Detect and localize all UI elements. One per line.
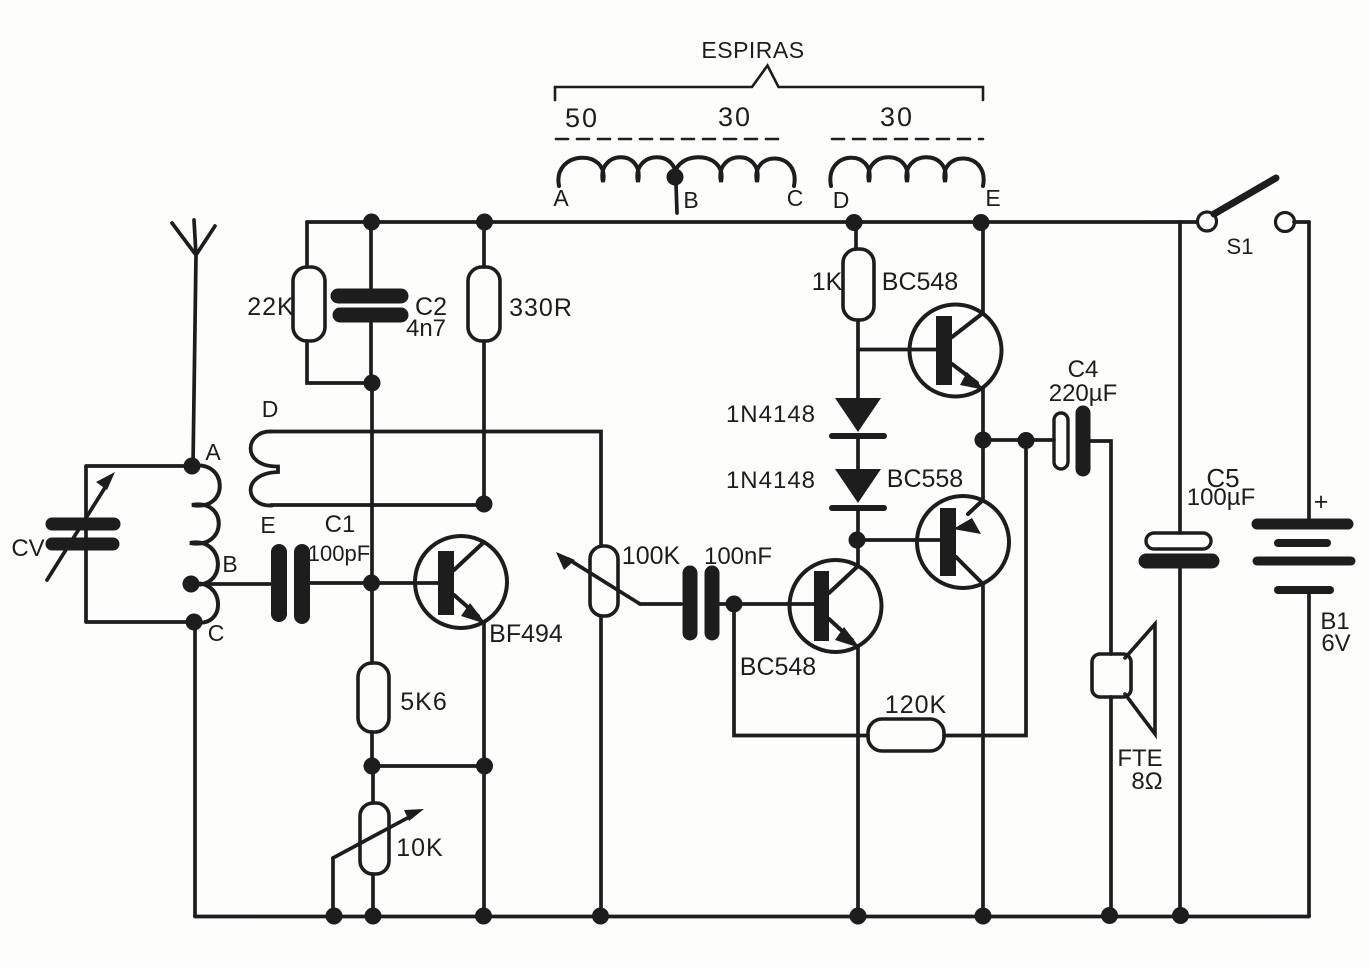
- svg-text:22K: 22K: [247, 293, 294, 321]
- node base of Q1: [363, 575, 380, 592]
- node ground/wiper: [326, 908, 343, 925]
- wire bias line C2 node down to base node: [370, 383, 374, 583]
- svg-text:BF494: BF494: [489, 620, 563, 648]
- capacitor C4 right plate (solid): [1076, 413, 1091, 469]
- wire C5 to ground: [1178, 568, 1182, 916]
- svg-text:BC548: BC548: [882, 268, 958, 296]
- transistor Q4 BC558 circle: [917, 496, 1009, 588]
- wire 22K bottom to node: [307, 341, 371, 383]
- resistor 1K: [843, 249, 874, 320]
- svg-text:50: 50: [565, 103, 599, 133]
- transistor Q3 emitter lead: [829, 619, 852, 640]
- svg-text:10K: 10K: [396, 834, 443, 862]
- svg-text:1N4148: 1N4148: [726, 401, 816, 428]
- svg-text:30: 30: [718, 102, 752, 132]
- wire C1 to base node: [311, 581, 371, 585]
- wire B to C1: [191, 582, 270, 586]
- node B tap on coil: [667, 169, 684, 186]
- wire 10K wiper to ground: [331, 858, 335, 916]
- node ground/speaker: [1101, 907, 1118, 924]
- transistor Q4 emitter arrowhead (PNP): [953, 518, 981, 534]
- wire base node to Q3 base: [734, 602, 815, 606]
- node rail/330R: [476, 214, 493, 231]
- capacitor C5 bottom plate (solid): [1146, 554, 1212, 569]
- svg-text:C: C: [787, 185, 804, 211]
- wire speaker to ground: [1109, 697, 1113, 916]
- potentiometer 100K wiper arrow: [568, 559, 640, 604]
- node 22K/C2 junction: [364, 375, 381, 392]
- transistor Q1 base bar: [438, 551, 454, 615]
- node B: [183, 576, 200, 593]
- svg-text:6V: 6V: [1321, 630, 1350, 657]
- wire D to 100K pot top: [271, 432, 601, 547]
- battery B1 plates: [1257, 519, 1348, 530]
- svg-text:1K: 1K: [812, 268, 843, 296]
- svg-text:ESPIRAS: ESPIRAS: [701, 37, 804, 63]
- svg-text:D: D: [262, 396, 279, 422]
- svg-text:BC558: BC558: [887, 465, 963, 493]
- variable capacitor CV arrow: [47, 486, 106, 580]
- transistor Q3 base bar: [814, 571, 829, 641]
- transistor Q3 collector lead: [829, 566, 858, 593]
- node diode/base junction: [849, 532, 866, 549]
- node rail/C2: [363, 214, 380, 231]
- svg-text:B: B: [222, 551, 237, 577]
- svg-text:30: 30: [880, 102, 914, 132]
- node C: [186, 614, 203, 631]
- wire S1 to battery line: [1294, 220, 1309, 224]
- wire 5K6 top: [370, 591, 374, 663]
- wire rail to 330R: [482, 222, 486, 267]
- wire E to collector node: [271, 503, 484, 507]
- capacitor C2 bottom wire: [369, 322, 373, 383]
- node 5K6/10K junction: [364, 758, 381, 775]
- node ground/100K: [592, 908, 609, 925]
- wire 100K bottom to ground: [599, 616, 603, 916]
- wire Q4 emitter up to node: [981, 440, 985, 500]
- transistor Q4 emitter lead: [968, 500, 983, 514]
- node ground/Q3 emitter: [850, 908, 867, 925]
- node A: [184, 458, 201, 475]
- wire B tap stub: [676, 183, 677, 213]
- resistor 5K6: [358, 663, 389, 732]
- svg-text:100nF: 100nF: [704, 543, 772, 570]
- svg-text:120K: 120K: [885, 691, 947, 719]
- node ground/C5: [1172, 907, 1189, 924]
- wire rail to 1K: [854, 222, 858, 249]
- potentiometer 10K body: [360, 803, 389, 874]
- transistor Q2 BC548 circle: [910, 305, 1002, 397]
- svg-text:A: A: [553, 185, 569, 211]
- speaker FTE box: [1092, 654, 1131, 697]
- node 120K/C4 junction: [1018, 432, 1035, 449]
- transistor Q1 emitter arrowhead: [461, 603, 486, 624]
- svg-text:+: +: [1314, 488, 1329, 516]
- svg-text:A: A: [205, 439, 221, 465]
- svg-text:1N4148: 1N4148: [726, 467, 816, 494]
- wire Q4 collector down to ground: [981, 584, 985, 916]
- transistor Q4 collector lead: [956, 557, 983, 584]
- svg-text:100µF: 100µF: [1187, 484, 1256, 511]
- wire Q2 emitter to node: [981, 389, 985, 440]
- resistor 22K: [293, 267, 325, 341]
- transistor Q4 base bar: [940, 508, 956, 576]
- coil L1 (tuning) vertical winding A-B-C: [190, 465, 220, 622]
- wire wiper to 100nF: [640, 602, 681, 606]
- svg-text:D: D: [833, 187, 850, 213]
- wire C4 to speaker: [1090, 441, 1111, 654]
- capacitor C5 top plate (hollow): [1146, 533, 1211, 549]
- wire bias cross link: [372, 764, 484, 768]
- node ground/10K: [365, 908, 382, 925]
- svg-text:E: E: [985, 185, 1000, 211]
- transistor Q1 BF494 circle: [415, 536, 507, 628]
- wire 10K top: [371, 766, 375, 803]
- capacitor C2 top wire: [369, 222, 373, 288]
- node rail/collector Q2: [973, 214, 990, 231]
- svg-text:E: E: [260, 512, 275, 538]
- wire D2 to node: [856, 510, 860, 540]
- wire 100nF to base node: [720, 602, 734, 606]
- wire node to Q4 base: [857, 538, 941, 542]
- wire battery bottom to ground rail: [1307, 594, 1311, 916]
- svg-text:B: B: [683, 187, 698, 213]
- node E/collector junction: [476, 496, 493, 513]
- variable capacitor CV plates: [52, 518, 114, 531]
- wire 120K right to C4 node: [944, 440, 1026, 736]
- resistor 120K: [868, 719, 944, 751]
- wire rail to 22K: [305, 222, 309, 267]
- transistor Q1 emitter lead: [454, 595, 478, 616]
- wire Q1 emitter down: [482, 622, 486, 766]
- antenna: [172, 220, 215, 466]
- wire node to C4: [983, 438, 1054, 442]
- resistor 330R: [468, 267, 500, 341]
- wire base node down to 120K: [734, 604, 868, 736]
- capacitor C1 plates: [271, 552, 287, 614]
- brace for turns: [555, 66, 983, 101]
- node emitter/C4 junction: [975, 432, 992, 449]
- wire D1 to D2: [856, 438, 860, 469]
- coil L1 winding A-B-C: [558, 157, 794, 186]
- transistor Q2 emitter lead: [952, 364, 977, 383]
- transistor Q2 base bar: [936, 316, 952, 385]
- wire Q2 base tap: [858, 348, 936, 352]
- svg-text:5K6: 5K6: [400, 688, 447, 716]
- svg-text:4n7: 4n7: [406, 315, 446, 342]
- svg-text:100K: 100K: [622, 542, 681, 570]
- wire 330R to node E/collector: [482, 341, 486, 504]
- wire Q3 collector up to diode node: [856, 540, 860, 566]
- svg-text:S1: S1: [1227, 234, 1254, 259]
- svg-text:C1: C1: [325, 511, 356, 538]
- wire emitter node to ground: [482, 766, 486, 916]
- wire C down to ground rail: [193, 622, 197, 916]
- svg-text:100pF: 100pF: [308, 541, 370, 566]
- node rail/1K: [846, 214, 863, 231]
- wire 10K bottom: [371, 874, 375, 916]
- node ground/Q4 collector: [975, 908, 992, 925]
- capacitor C4 left plate (hollow): [1054, 413, 1068, 469]
- node emitter bias junction: [476, 758, 493, 775]
- switch S1 right contact: [1276, 213, 1295, 232]
- transistor Q3 BC548 circle: [790, 560, 882, 652]
- transistor Q2 emitter arrowhead: [960, 372, 985, 390]
- wire rail to C5: [1178, 222, 1182, 533]
- wire battery top: [1307, 222, 1311, 518]
- svg-text:330R: 330R: [509, 294, 573, 322]
- capacitor 100nF plates: [683, 573, 698, 633]
- svg-text:C: C: [208, 620, 225, 646]
- svg-text:220µF: 220µF: [1049, 380, 1118, 407]
- wire bottom ground rail: [195, 915, 1309, 919]
- transistor Q1 collector lead: [454, 542, 484, 570]
- variable capacitor CV frame wire: [86, 466, 194, 622]
- svg-text:C4: C4: [1068, 356, 1099, 383]
- wire Q2 collector to rail: [981, 222, 985, 313]
- switch S1 left contact: [1198, 212, 1217, 231]
- speaker FTE cone: [1125, 624, 1155, 734]
- svg-text:BC548: BC548: [740, 653, 816, 681]
- dashed separator line: [556, 138, 983, 141]
- wire Q3 emitter down to ground: [856, 646, 860, 916]
- svg-text:8Ω: 8Ω: [1131, 768, 1162, 795]
- wire 1K bottom to diode D1: [856, 320, 860, 399]
- wire top supply rail: [307, 220, 1197, 224]
- transistor Q3 emitter arrowhead: [835, 627, 860, 648]
- wire 5K6 bottom to node: [370, 732, 374, 766]
- coil L2 winding D-E: [830, 157, 983, 186]
- node ground/Q1 emitter: [475, 908, 492, 925]
- switch S1 lever: [1214, 178, 1276, 214]
- capacitor C2 plates: [338, 289, 401, 304]
- diode D1 1N4148: [835, 398, 881, 432]
- diode D2 1N4148: [835, 469, 881, 503]
- potentiometer 10K wiper arrow: [333, 815, 413, 858]
- node Q3 base junction: [726, 596, 743, 613]
- transistor Q2 collector lead: [952, 313, 983, 337]
- potentiometer 100K body: [590, 546, 618, 616]
- svg-text:CV: CV: [11, 535, 44, 562]
- coil L2 feedback loop D-E: [251, 431, 278, 505]
- wire base node to Q1 base: [372, 581, 439, 585]
